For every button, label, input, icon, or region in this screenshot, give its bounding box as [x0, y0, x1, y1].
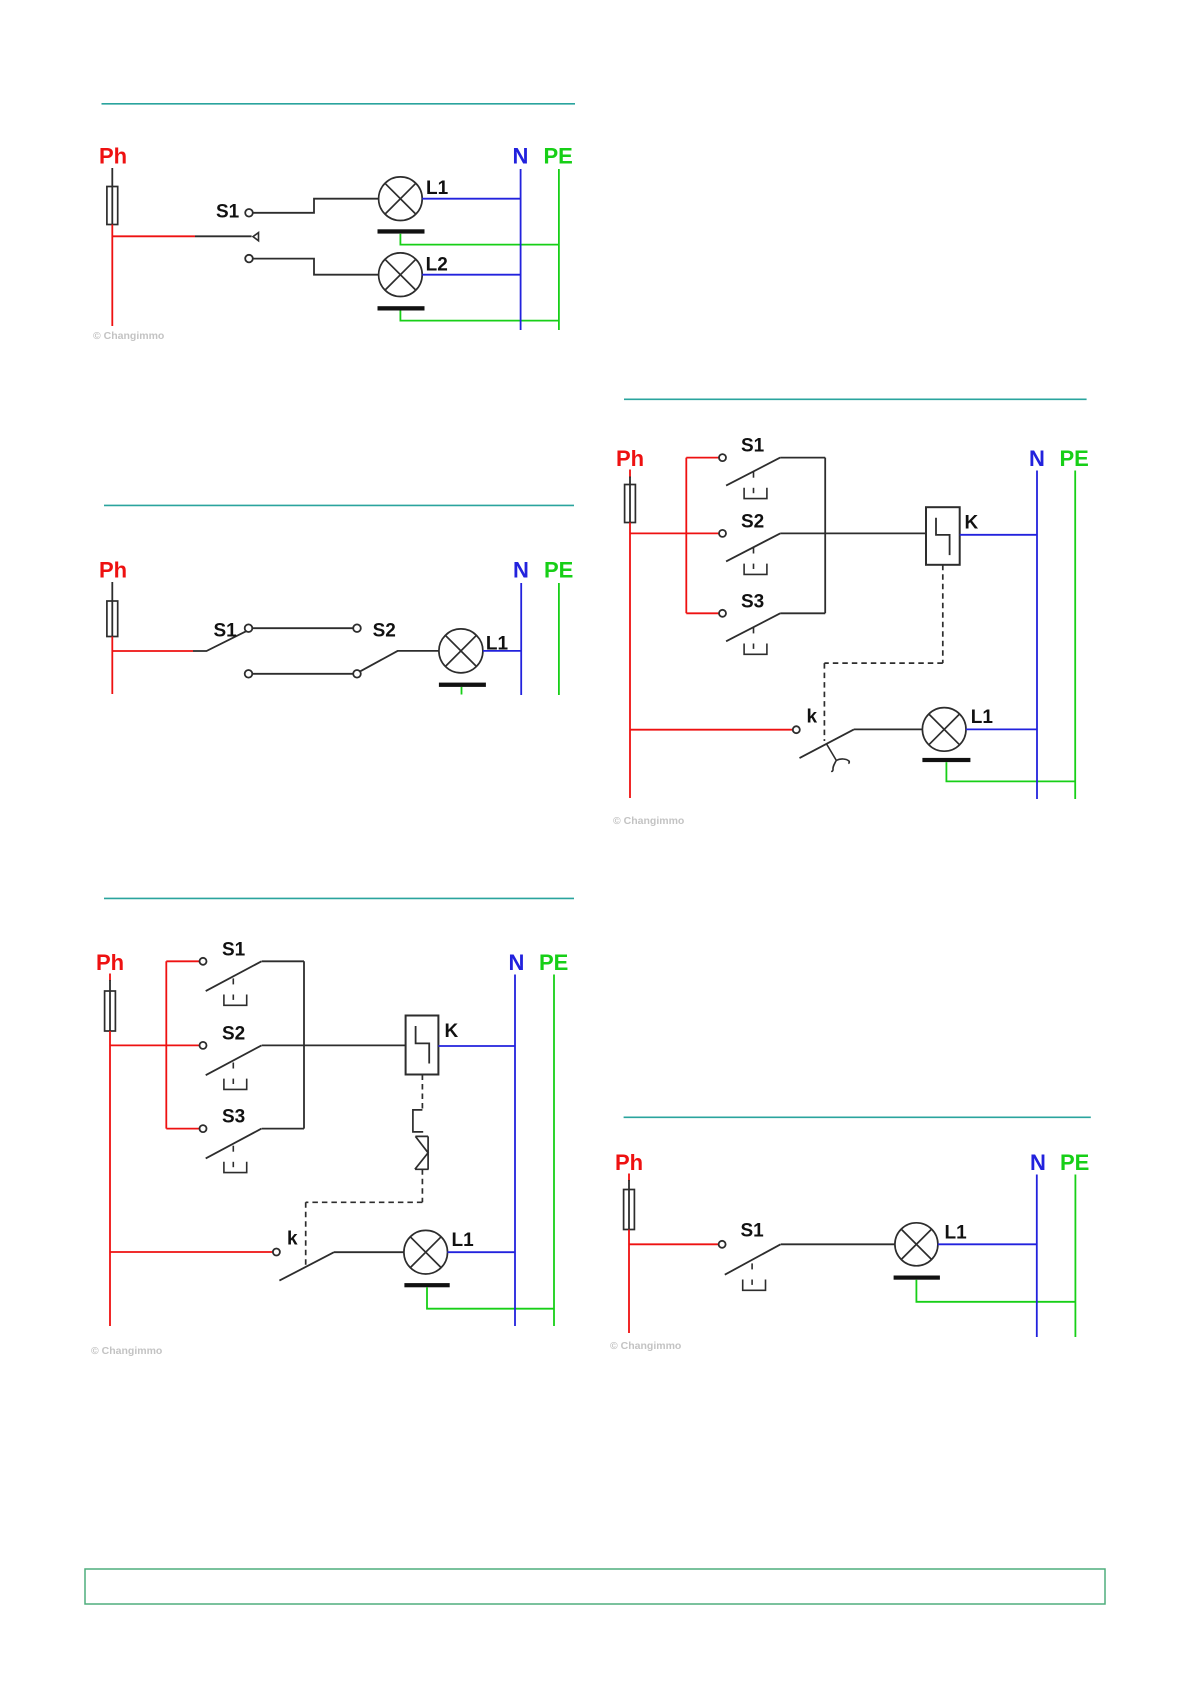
D4 fuse F1 — [105, 991, 116, 1031]
svg-text:Ph: Ph — [96, 950, 124, 975]
D2 lamp L1 — [439, 629, 483, 673]
section rule 2 — [104, 504, 574, 506]
D3 wire S2 out — [780, 532, 825, 534]
D2 switch S2 contact top — [353, 624, 361, 632]
svg-text:N: N — [509, 950, 525, 975]
svg-text:N: N — [1029, 446, 1045, 471]
svg-text:K: K — [445, 1021, 459, 1042]
D3 lamp L1 — [922, 708, 966, 752]
D4 button S1 contact — [200, 958, 207, 965]
D4 wire Ph stub — [109, 974, 111, 982]
svg-text:S2: S2 — [222, 1024, 245, 1045]
D4 wire collector — [303, 961, 305, 1128]
D4 wire to contact k — [110, 1251, 273, 1253]
D3 button S2 — [726, 533, 780, 574]
svg-text:PE: PE — [544, 558, 573, 583]
D2 wire L1 earth stub — [461, 687, 463, 695]
D5 lamp L1 earth plate — [894, 1276, 940, 1280]
svg-text:L1: L1 — [426, 178, 449, 199]
D3 wire L1 to N — [966, 728, 1037, 730]
D1 wire L1 earth to PE — [400, 234, 559, 245]
svg-text:k: k — [807, 707, 818, 728]
D5 lamp L1 — [895, 1223, 938, 1266]
section rule 4 — [104, 897, 574, 899]
D3 link coil drop — [942, 565, 944, 663]
svg-text:© Changimmo: © Changimmo — [610, 1340, 681, 1352]
D2 switch S1 contact top — [245, 624, 253, 632]
D3 wire S1 out — [780, 457, 825, 459]
D4 wire L1 earth to PE — [427, 1287, 554, 1308]
D3 wire phase rail — [629, 523, 631, 799]
D1 lamp L2 earth plate — [378, 306, 425, 310]
D4 wire S2 out — [262, 1044, 304, 1046]
D5 wire Ph stub — [628, 1174, 630, 1182]
D5 neutral rail — [1036, 1175, 1038, 1338]
svg-text:S1: S1 — [741, 1221, 765, 1242]
D3 wire to S2 — [630, 532, 719, 534]
D3 relay coil K — [926, 507, 960, 565]
D2 lamp L1 earth plate — [439, 683, 486, 687]
D4 lamp L1 — [404, 1230, 448, 1274]
svg-text:PE: PE — [539, 950, 568, 975]
D2 wire to S1 — [112, 650, 193, 652]
comment box — [85, 1569, 1105, 1604]
D3 wire to coil K — [825, 532, 926, 534]
D3 button S3 — [726, 613, 780, 654]
D1 wire L2 to N — [422, 274, 520, 276]
D4 link to contact — [305, 1202, 307, 1266]
D3 lamp L1 earth plate — [922, 758, 970, 762]
D3 wire collector — [824, 458, 826, 614]
svg-text:N: N — [513, 144, 529, 169]
D4 timer bellows — [415, 1136, 429, 1169]
D3 wire Ph stub — [629, 470, 631, 478]
D1 wire common — [195, 235, 252, 237]
svg-text:N: N — [513, 558, 529, 583]
D4 contact k terminal — [273, 1249, 280, 1256]
D5 wire S1 to L1 — [781, 1243, 895, 1245]
D4 wire to coil K — [304, 1044, 406, 1046]
D5 wire phase rail — [628, 1230, 630, 1334]
svg-text:© Changimmo: © Changimmo — [613, 815, 684, 827]
svg-text:Ph: Ph — [99, 558, 127, 583]
D3 contact k blade — [800, 729, 854, 758]
D3 wire blade to L1 — [854, 728, 923, 730]
svg-text:PE: PE — [1060, 446, 1089, 471]
D3 wire L1 earth to PE — [946, 762, 1075, 781]
D3 contact k latch — [826, 743, 849, 771]
D2 wire strap bottom — [252, 673, 353, 675]
D3 button S2 contact — [719, 530, 726, 537]
svg-text:S1: S1 — [222, 940, 246, 961]
D1 wire L1 to N — [422, 198, 520, 200]
D3 link horizontal — [824, 662, 942, 664]
D2 switch S2 contact bottom — [353, 670, 361, 678]
D3 link to contact — [823, 663, 825, 741]
D1 lamp L1 — [379, 177, 423, 221]
svg-text:L2: L2 — [426, 254, 448, 275]
D4 button S2 contact — [200, 1042, 207, 1049]
svg-text:S3: S3 — [741, 592, 764, 613]
D4 button S3 — [206, 1129, 262, 1173]
D2 fuse F1 — [107, 601, 118, 637]
section rule 5 — [624, 1116, 1091, 1118]
D3 wire bus to S3 — [686, 612, 719, 614]
D3 wire to contact k — [630, 729, 793, 731]
svg-text:L1: L1 — [945, 1223, 968, 1244]
D4 wire to S2 — [110, 1044, 200, 1046]
D3 neutral rail — [1036, 471, 1038, 800]
D5 fuse F1 — [624, 1190, 635, 1230]
D2 wire phase rail — [111, 637, 113, 695]
D4 wire S3 out — [262, 1128, 304, 1130]
svg-text:S1: S1 — [216, 202, 240, 223]
D2 wire strap top — [252, 627, 353, 629]
svg-text:S2: S2 — [741, 512, 764, 533]
D4 button S2 — [206, 1045, 262, 1089]
D5 wire L1 earth to PE — [916, 1280, 1075, 1302]
D2 switch S2 blade — [360, 651, 439, 672]
D4 link drop 2 — [421, 1169, 423, 1202]
D4 link coil drop — [421, 1075, 423, 1110]
D2 wire Ph stub — [111, 582, 113, 602]
D1 lamp L2 — [379, 253, 423, 297]
D4 timer escapement — [413, 1110, 423, 1132]
D1 wire contact1 to L1 — [253, 199, 379, 213]
D3 fuse F1 — [625, 485, 636, 523]
D1 wire phase rail — [111, 225, 113, 327]
D4 wire L1 to N — [448, 1251, 516, 1253]
svg-text:© Changimmo: © Changimmo — [91, 1345, 162, 1357]
D3 button S3 contact — [719, 610, 726, 617]
svg-text:S2: S2 — [373, 621, 396, 642]
svg-text:S3: S3 — [222, 1107, 245, 1128]
D2 switch S1 blade — [193, 631, 246, 651]
D2 wire L1 to N — [483, 650, 521, 652]
svg-text:S1: S1 — [741, 436, 765, 457]
D1 wire to switch — [112, 235, 195, 237]
D4 wire blade to L1 — [334, 1251, 404, 1253]
D1 wire Ph stub — [111, 168, 113, 187]
D3 wire S3 out — [780, 612, 825, 614]
D5 button S1 — [725, 1244, 781, 1290]
svg-text:Ph: Ph — [616, 446, 644, 471]
svg-text:k: k — [287, 1229, 298, 1250]
D3 wire bus to S1 — [686, 457, 719, 459]
D1 lamp L1 earth plate — [378, 229, 425, 233]
D4 contact k blade — [279, 1252, 334, 1280]
svg-text:Ph: Ph — [99, 144, 127, 169]
D1 switch S1 common pole — [253, 233, 259, 241]
D2 switch S1 contact bottom — [245, 670, 253, 678]
D1 wire L2 earth to PE — [400, 311, 559, 321]
D5 wire L1 to N — [938, 1243, 1037, 1245]
svg-text:L1: L1 — [452, 1230, 475, 1251]
svg-text:S1: S1 — [214, 621, 238, 642]
D1 wire contact2 to L2 — [253, 259, 379, 275]
D4 wire button bus — [165, 961, 167, 1128]
D3 button S1 — [726, 458, 780, 499]
section rule 3 — [624, 398, 1087, 400]
D2 earth rail — [558, 583, 560, 695]
D4 wire phase rail — [109, 1031, 111, 1326]
svg-text:L1: L1 — [971, 707, 994, 728]
D4 button S3 contact — [200, 1125, 207, 1132]
D4 link horizontal — [306, 1201, 423, 1203]
D4 wire bus to S3 — [166, 1128, 199, 1130]
D1 switch S1 contact 2 — [245, 255, 253, 263]
D2 neutral rail — [520, 583, 522, 695]
D3 wire button bus — [685, 458, 687, 614]
D3 earth rail — [1074, 471, 1076, 800]
svg-text:PE: PE — [1060, 1150, 1089, 1175]
svg-text:© Changimmo: © Changimmo — [93, 330, 164, 342]
D5 button S1 contact — [719, 1241, 726, 1248]
D3 button S1 contact — [719, 454, 726, 461]
D5 wire to S1 — [629, 1243, 719, 1245]
D4 button S1 — [206, 961, 262, 1005]
D4 wire coil to N — [438, 1045, 515, 1047]
D1 earth rail — [558, 169, 560, 330]
svg-text:K: K — [965, 513, 979, 534]
D3 contact k terminal — [793, 726, 800, 733]
svg-text:N: N — [1030, 1150, 1046, 1175]
D5 earth rail — [1074, 1175, 1076, 1338]
D4 wire S1 out — [262, 960, 304, 962]
D1 neutral rail — [520, 169, 522, 330]
section rule 1 — [102, 103, 576, 105]
svg-text:Ph: Ph — [615, 1150, 643, 1175]
D4 lamp L1 earth plate — [404, 1283, 449, 1287]
svg-text:PE: PE — [544, 144, 573, 169]
D1 fuse F1 — [107, 187, 118, 225]
D4 earth rail — [553, 975, 555, 1327]
D4 wire bus to S1 — [166, 960, 199, 962]
D4 relay coil K — [406, 1016, 439, 1075]
D1 switch S1 contact 1 — [245, 209, 253, 217]
D3 wire coil to N — [960, 534, 1037, 536]
D4 neutral rail — [514, 975, 516, 1327]
